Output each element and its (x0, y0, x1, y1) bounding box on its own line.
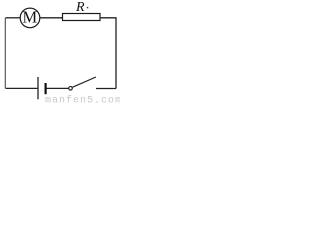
svg-text:R: R (75, 0, 85, 15)
svg-text:manfen5.com: manfen5.com (45, 94, 120, 104)
wire: resistor to top-right corner and down right side (100, 18, 116, 89)
resistor R (box) (63, 14, 101, 21)
svg-text:M: M (22, 8, 37, 27)
wire: top-left segment from left corner to motor (6, 17, 21, 19)
switch S1 blade (open) (73, 77, 96, 87)
wire: bottom-left to battery (6, 87, 38, 89)
wire: left side vertical (4, 18, 6, 89)
wire: motor to resistor (40, 17, 63, 19)
background (0, 0, 120, 104)
switch pivot circle (69, 87, 73, 91)
battery negative plate (short thick) (44, 83, 46, 94)
motor M1 (circle) (20, 8, 40, 28)
wire: battery to switch (47, 87, 69, 89)
battery positive plate (long thin) (37, 77, 39, 99)
label subscript mark (86, 7, 88, 9)
wire: bottom-right contact segment (96, 88, 116, 90)
